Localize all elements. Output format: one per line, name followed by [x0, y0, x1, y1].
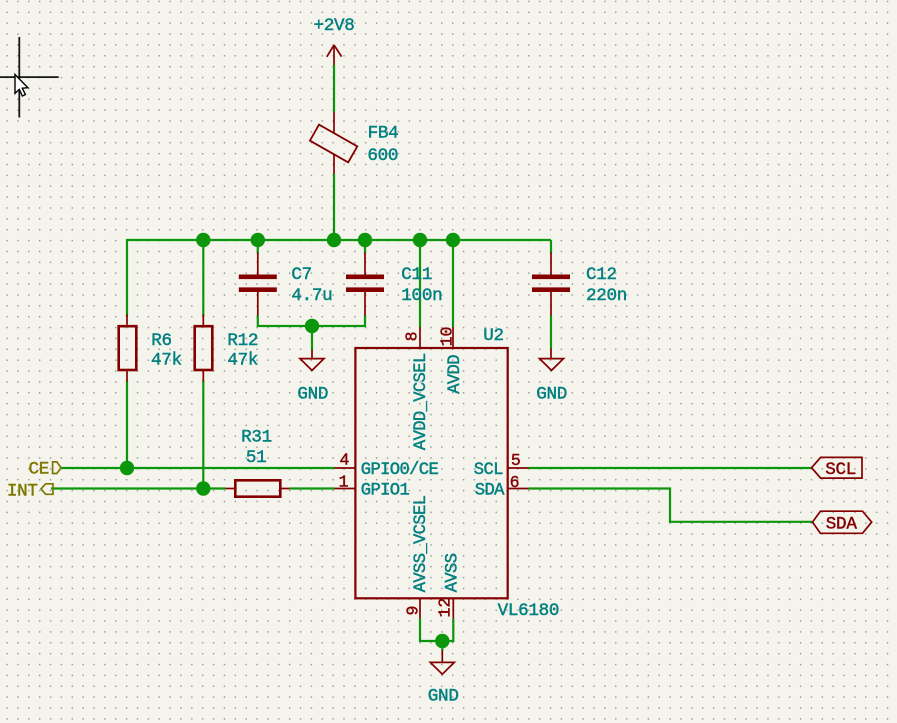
svg-text:C11: C11 — [401, 265, 432, 285]
svg-text:47k: 47k — [227, 351, 258, 371]
svg-text:AVDD: AVDD — [446, 355, 465, 394]
svg-text:6: 6 — [510, 473, 520, 492]
svg-text:12: 12 — [436, 598, 455, 618]
svg-text:VL6180: VL6180 — [498, 601, 560, 621]
svg-text:8: 8 — [402, 331, 421, 341]
svg-text:SCL: SCL — [825, 460, 856, 480]
svg-text:220n: 220n — [586, 286, 627, 306]
svg-text:GPIO1: GPIO1 — [361, 482, 410, 501]
svg-text:+2V8: +2V8 — [313, 16, 354, 36]
svg-text:SDA: SDA — [826, 514, 858, 534]
svg-text:R31: R31 — [241, 428, 272, 448]
svg-text:GND: GND — [428, 687, 459, 707]
svg-text:FB4: FB4 — [368, 123, 399, 143]
svg-text:R6: R6 — [151, 331, 172, 351]
svg-text:R12: R12 — [227, 331, 258, 351]
svg-text:GND: GND — [536, 385, 567, 405]
svg-text:100n: 100n — [401, 286, 442, 306]
svg-text:51: 51 — [246, 448, 267, 468]
svg-text:CE: CE — [28, 460, 49, 480]
svg-text:SDA: SDA — [475, 482, 505, 501]
svg-text:C12: C12 — [586, 265, 617, 285]
svg-text:AVSS: AVSS — [443, 553, 462, 592]
svg-text:10: 10 — [437, 327, 456, 347]
svg-text:GND: GND — [297, 385, 328, 405]
svg-text:U2: U2 — [483, 326, 504, 346]
svg-text:4.7u: 4.7u — [291, 286, 332, 306]
svg-text:4: 4 — [339, 450, 349, 469]
svg-text:GPIO0/CE: GPIO0/CE — [361, 461, 439, 480]
svg-text:600: 600 — [367, 146, 398, 166]
svg-text:SCL: SCL — [474, 461, 503, 480]
svg-text:C7: C7 — [291, 265, 312, 285]
svg-text:47k: 47k — [151, 351, 182, 371]
svg-text:1: 1 — [339, 473, 349, 492]
svg-text:5: 5 — [511, 451, 521, 470]
svg-text:AVDD_VCSEL: AVDD_VCSEL — [412, 353, 431, 450]
svg-text:INT: INT — [7, 481, 38, 501]
svg-text:AVSS_VCSEL: AVSS_VCSEL — [412, 495, 431, 592]
svg-text:9: 9 — [404, 606, 423, 616]
